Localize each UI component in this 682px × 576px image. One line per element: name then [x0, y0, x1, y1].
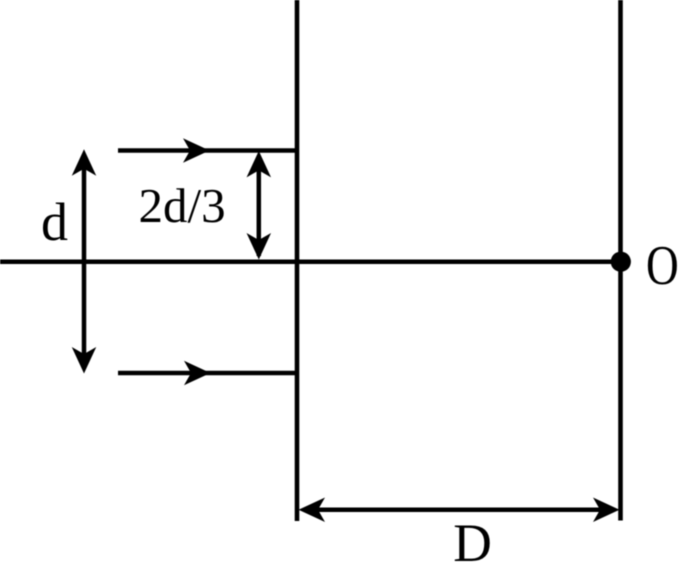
2d/3 dimension double arrow [247, 151, 272, 260]
screen plane [618, 0, 623, 521]
slit barrier plane [295, 0, 300, 521]
central axis [0, 260, 620, 265]
label 2d/3 [139, 178, 226, 233]
point O dot [611, 252, 631, 272]
label d [41, 192, 68, 252]
svg-text:O: O [646, 236, 679, 298]
upper incident ray [118, 138, 297, 163]
svg-text:d: d [41, 192, 68, 252]
label D [453, 513, 492, 573]
D dimension double arrow [299, 498, 620, 523]
svg-text:2d/3: 2d/3 [139, 178, 226, 233]
d dimension double arrow [72, 149, 97, 373]
label O [646, 236, 679, 298]
svg-text:D: D [453, 513, 492, 573]
lower incident ray [118, 361, 297, 386]
